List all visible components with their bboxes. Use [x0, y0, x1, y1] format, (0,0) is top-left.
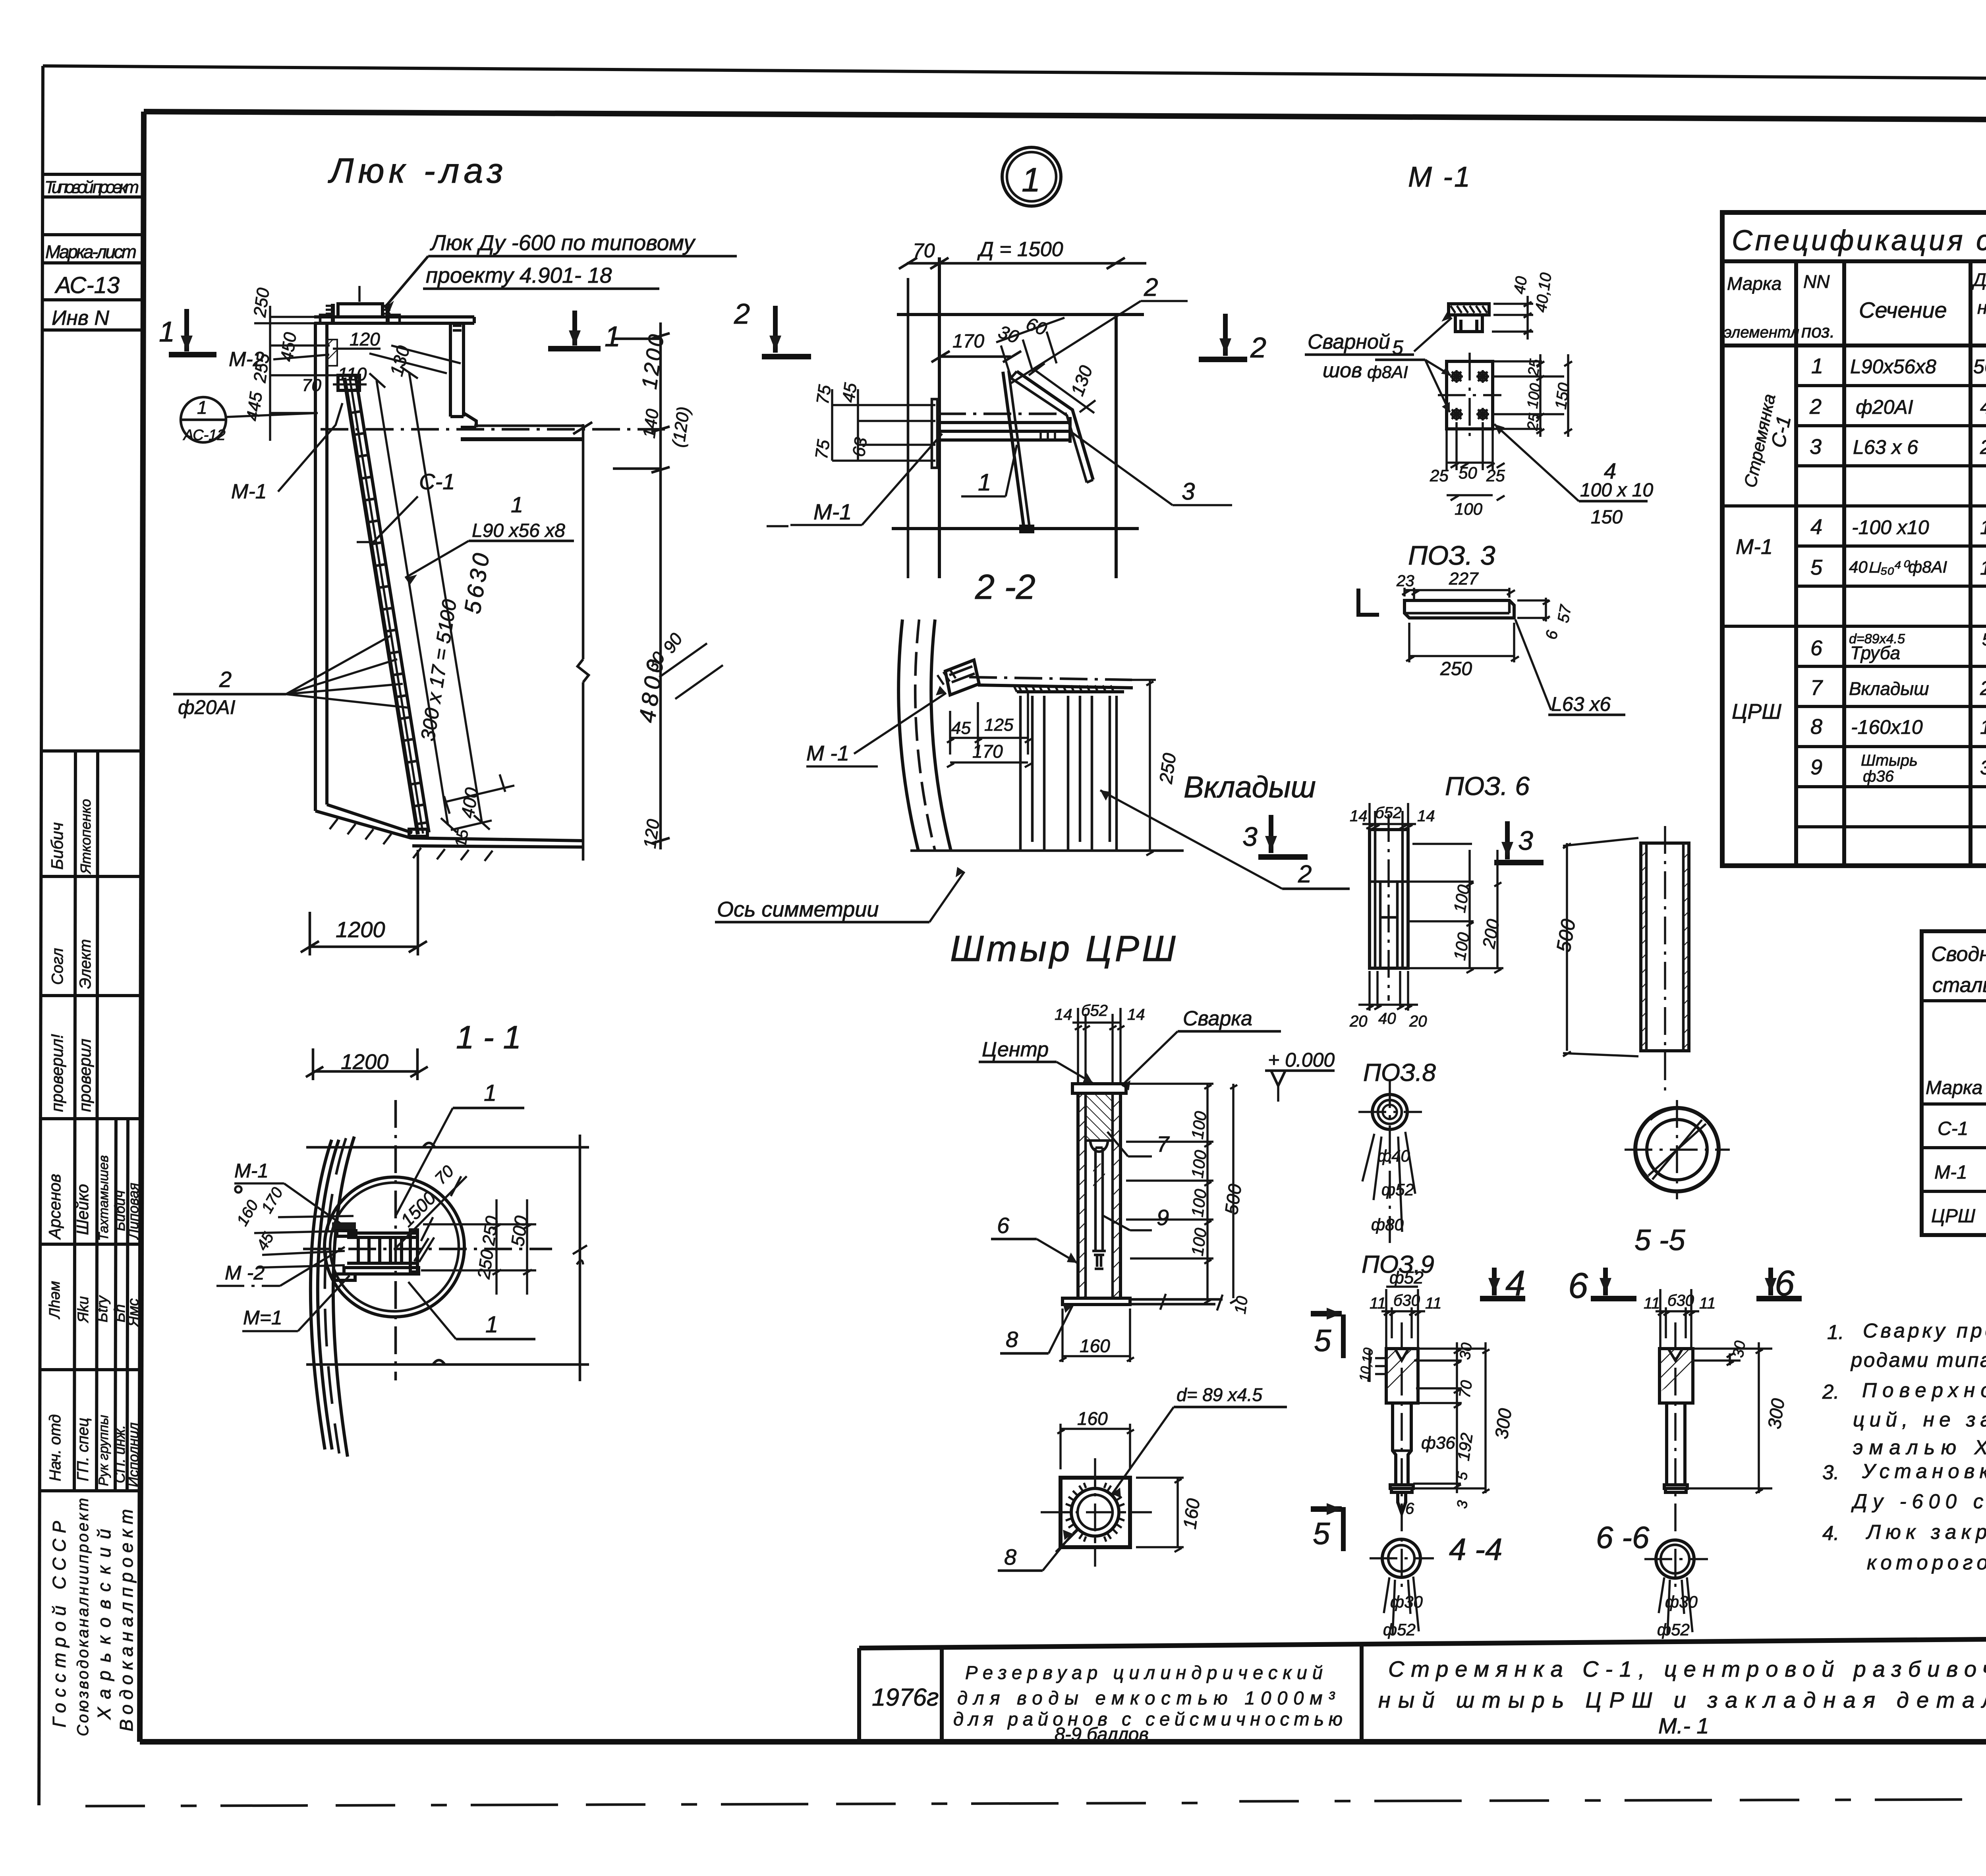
svg-text:25: 25	[1524, 412, 1543, 432]
svg-text:Ось симметрии: Ось симметрии	[717, 897, 879, 921]
section marks 3	[1242, 815, 1544, 863]
dims bottom 20 40 20	[1358, 971, 1418, 1011]
svg-text:проверил: проверил	[75, 1038, 94, 1112]
svg-text:Бибич: Бибич	[48, 822, 66, 870]
svg-text:4.: 4.	[1822, 1522, 1839, 1544]
svg-text:1: 1	[511, 492, 523, 517]
svg-text:465: 465	[1980, 396, 1986, 418]
svg-text:М -2: М -2	[225, 1262, 265, 1284]
svg-text:192: 192	[1454, 1432, 1476, 1462]
sheet outer border left	[39, 66, 43, 1805]
bottom dim 1200	[310, 946, 418, 948]
right dims 250 250 500	[579, 1135, 582, 1381]
dim 160 top	[1057, 1424, 1134, 1469]
balloon 1/АС-12	[181, 397, 226, 442]
svg-text:15: 15	[452, 828, 472, 849]
svg-text:Сечение: Сечение	[1859, 297, 1947, 322]
svg-text:2: 2	[1250, 332, 1266, 364]
svg-text:300: 300	[1764, 1397, 1788, 1430]
svg-text:70: 70	[302, 376, 321, 395]
svg-text:ЦРШ: ЦРШ	[1931, 1206, 1976, 1227]
svg-text:Д = 1500: Д = 1500	[977, 238, 1063, 261]
М-1 bracket on wall	[945, 660, 979, 695]
svg-text:1: 1	[978, 469, 991, 496]
svg-text:Люк Ду -600 по типовому: Люк Ду -600 по типовому	[430, 230, 696, 255]
svg-text:С-1: С-1	[1938, 1118, 1968, 1139]
svg-text:11: 11	[1425, 1295, 1442, 1312]
detail tube 500 (section 5-5 source)	[1552, 826, 1730, 1256]
svg-text:250: 250	[1440, 658, 1472, 679]
svg-text:160: 160	[1077, 1408, 1108, 1429]
svg-text:120: 120	[640, 818, 663, 849]
svg-text:140: 140	[639, 407, 663, 439]
plate dims right: 25 100 25 / 150	[1493, 354, 1572, 437]
svg-text:Элект: Элект	[77, 939, 94, 989]
svg-text:Лhəм: Лhəм	[46, 1281, 63, 1320]
svg-text:70: 70	[913, 239, 935, 262]
svg-text:14: 14	[1055, 1006, 1072, 1023]
svg-text:300: 300	[1980, 757, 1986, 779]
big specification table	[1722, 212, 1986, 866]
svg-text:500: 500	[507, 1214, 531, 1248]
svg-text:14: 14	[1127, 1006, 1145, 1023]
base plate	[1063, 1298, 1130, 1305]
svg-text:2: 2	[1298, 861, 1312, 888]
svg-text:5: 5	[1392, 336, 1403, 359]
svg-text:Арсенов: Арсенов	[45, 1174, 64, 1240]
dims right 100x4 500	[1126, 1084, 1237, 1303]
right dimension line	[659, 322, 662, 849]
svg-text:8-9 баллов: 8-9 баллов	[1055, 1724, 1149, 1745]
rail section	[938, 417, 1070, 443]
dim 160 below base	[1059, 1309, 1134, 1362]
water level dash-dot	[321, 428, 665, 431]
svg-text:L90x56x8: L90x56x8	[1850, 355, 1936, 378]
dims right 100 100 200	[1408, 844, 1503, 973]
svg-text:Исполнил: Исполнил	[125, 1422, 141, 1487]
svg-text:3.: 3.	[1822, 1461, 1839, 1484]
section marks 4, 5, 6 around 4-4	[1311, 1264, 1636, 1551]
svg-text:б30: б30	[1667, 1292, 1694, 1309]
sheet outer border top	[43, 66, 1986, 81]
roof slab right of beam	[474, 425, 583, 427]
svg-text:+ 0.000: + 0.000	[1268, 1049, 1335, 1071]
svg-text:-100 х10: -100 х10	[1852, 516, 1929, 538]
svg-text:25: 25	[1525, 358, 1544, 378]
svg-text:Рук группы: Рук группы	[96, 1415, 111, 1486]
svg-text:М -1: М -1	[806, 741, 849, 765]
dims 57 6	[1517, 598, 1550, 621]
svg-text:23: 23	[1396, 572, 1414, 590]
svg-text:ф8АI: ф8АI	[1367, 363, 1408, 382]
anchor pins	[1017, 690, 1124, 693]
svg-text:Согл: Согл	[49, 948, 66, 985]
dim 500	[1563, 838, 1638, 1056]
tank floor	[315, 811, 583, 841]
svg-text:шов: шов	[1323, 359, 1362, 382]
svg-text:Марка: Марка	[1727, 273, 1781, 294]
top block	[1386, 1349, 1418, 1403]
svg-text:3: 3	[1182, 478, 1195, 505]
svg-text:1: 1	[485, 1312, 498, 1338]
svg-text:ф20АI: ф20АI	[178, 696, 236, 718]
svg-text:6: 6	[1775, 1264, 1795, 1303]
svg-text:7: 7	[1157, 1131, 1170, 1156]
svg-text:ф36: ф36	[1863, 768, 1894, 785]
svg-text:5 -5: 5 -5	[1634, 1224, 1685, 1256]
construction verticals	[907, 278, 910, 578]
svg-text:2: 2	[1809, 395, 1822, 419]
svg-text:75: 75	[811, 438, 833, 461]
svg-text:11: 11	[1370, 1295, 1386, 1312]
svg-text:70: 70	[1456, 1379, 1476, 1399]
svg-text:50: 50	[1459, 463, 1477, 482]
top chord line	[306, 1146, 589, 1149]
svg-text:ф40: ф40	[1377, 1146, 1410, 1165]
svg-text:ф30: ф30	[1390, 1592, 1423, 1611]
svg-text:М-1: М-1	[813, 499, 852, 524]
svg-text:Штырь: Штырь	[1861, 752, 1918, 769]
svg-text:2: 2	[734, 298, 750, 330]
svg-text:-160х10: -160х10	[1851, 716, 1923, 738]
manhole circles	[325, 1177, 464, 1317]
svg-text:45: 45	[838, 382, 860, 404]
diagonal dim lines along ladder	[377, 380, 448, 825]
node circle 1	[1002, 147, 1061, 206]
svg-text:4: 4	[1810, 515, 1822, 539]
svg-text:Яku: Яku	[75, 1296, 92, 1323]
roof slab	[314, 315, 338, 318]
svg-text:75: 75	[813, 384, 835, 406]
svg-text:300: 300	[1491, 1407, 1515, 1440]
ladder rungs	[346, 390, 427, 824]
svg-text:Вкладыш: Вкладыш	[1849, 678, 1929, 699]
roof support beam	[450, 323, 476, 427]
small dims 10 left	[1370, 1350, 1385, 1382]
svg-text:3: 3	[1242, 822, 1258, 852]
detail М-1	[1305, 161, 1653, 528]
svg-text:200: 200	[1980, 677, 1986, 699]
svg-text:М-1: М-1	[1736, 535, 1773, 559]
svg-text:1: 1	[1022, 161, 1040, 199]
dims below	[1384, 1577, 1419, 1635]
tip	[1398, 1492, 1406, 1513]
svg-text:160: 160	[1980, 716, 1986, 738]
svg-text:5: 5	[1313, 1516, 1330, 1551]
frame left	[140, 112, 144, 1742]
ladder plan	[347, 1233, 417, 1268]
inner insert hatched	[1086, 1093, 1113, 1141]
svg-text:150: 150	[1552, 382, 1573, 410]
inner pin	[1092, 1148, 1106, 1269]
svg-text:170: 170	[972, 741, 1003, 762]
stem	[1393, 1403, 1411, 1484]
svg-text:1.: 1.	[1827, 1321, 1844, 1343]
plate dims bottom: 25 50 25 / 100	[1447, 422, 1505, 500]
baseline under pins	[910, 849, 1184, 852]
top horizontal	[897, 313, 1144, 316]
svg-text:250: 250	[250, 286, 273, 318]
svg-text:4 -4: 4 -4	[1449, 1532, 1502, 1567]
svg-text:100: 100	[1188, 1110, 1210, 1141]
svg-text:130: 130	[1980, 557, 1986, 579]
svg-text:1 - 1: 1 - 1	[456, 1019, 521, 1056]
svg-text:2 -2: 2 -2	[975, 567, 1036, 606]
sheet bottom scan edge dashed	[85, 1798, 1986, 1806]
svg-text:100: 100	[1188, 1149, 1210, 1179]
svg-text:11: 11	[1644, 1295, 1660, 1312]
svg-text:М-1: М-1	[231, 480, 267, 503]
svg-text:250: 250	[1155, 752, 1180, 786]
svg-text:100 х 10: 100 х 10	[1580, 480, 1653, 501]
svg-text:9: 9	[1157, 1205, 1169, 1230]
angle bar	[1404, 600, 1514, 618]
svg-text:Шейко: Шейко	[73, 1184, 92, 1235]
svg-text:1: 1	[159, 316, 175, 348]
svg-text:М=1: М=1	[243, 1307, 282, 1329]
svg-text:5: 5	[1810, 556, 1823, 579]
detail ПОЗ.3	[1358, 540, 1625, 715]
svg-text:250: 250	[1980, 436, 1986, 458]
dims 45 125 170 250	[947, 693, 1032, 767]
svg-text:Штыр ЦРШ: Штыр ЦРШ	[950, 928, 1178, 969]
svg-text:ЦРШ: ЦРШ	[1732, 700, 1781, 724]
svg-text:40: 40	[1378, 1010, 1396, 1027]
svg-text:110: 110	[338, 364, 367, 384]
wall arcs with М-1 bracket	[642, 620, 1350, 889]
svg-text:Люк -лаз: Люк -лаз	[328, 151, 507, 190]
svg-text:45: 45	[951, 718, 971, 738]
svg-text:ПОЗ.8: ПОЗ.8	[1363, 1059, 1436, 1087]
left margin stamp: signature grid	[39, 751, 142, 1736]
svg-text:б30: б30	[1393, 1292, 1420, 1309]
dims 40/10 right of channel	[1492, 296, 1533, 340]
svg-text:100: 100	[1455, 500, 1483, 518]
svg-text:М -1: М -1	[1408, 161, 1472, 193]
svg-text:1: 1	[1811, 354, 1823, 378]
svg-text:ф52: ф52	[1389, 1268, 1424, 1287]
svg-text:40: 40	[1511, 275, 1530, 295]
label Ось симметрии	[715, 867, 964, 922]
svg-text:ф30: ф30	[1665, 1592, 1698, 1611]
svg-text:25: 25	[1486, 466, 1505, 485]
svg-text:20: 20	[1349, 1013, 1368, 1030]
svg-text:1: 1	[605, 321, 620, 353]
ladder stringers C-1	[344, 378, 418, 834]
top dim line Д=1500	[907, 262, 1146, 265]
svg-text:Бtry: Бtry	[94, 1295, 111, 1322]
svg-text:227: 227	[1449, 569, 1479, 589]
svg-text:150: 150	[1980, 516, 1986, 538]
channel piece poz 5	[1449, 304, 1489, 315]
gear circle	[1071, 1488, 1119, 1536]
svg-text:стальных элементов: стальных элементов	[1932, 974, 1986, 997]
tank left wall	[314, 323, 317, 811]
anchor plate poz 4 with bolts	[1447, 361, 1493, 429]
svg-text:125: 125	[984, 715, 1014, 735]
svg-text:3: 3	[1518, 826, 1533, 856]
svg-text:6: 6	[1568, 1266, 1588, 1306]
svg-text:Длина: Длина	[1971, 269, 1986, 290]
mark 6 right	[1768, 1268, 1773, 1295]
bottom chord	[306, 1363, 589, 1366]
summary table	[1922, 931, 1986, 1235]
svg-text:L90 х56 х8: L90 х56 х8	[472, 520, 565, 541]
svg-text:Труба: Труба	[1850, 643, 1900, 663]
svg-text:2: 2	[1144, 273, 1158, 301]
svg-text:ПОЗ. 6: ПОЗ. 6	[1445, 771, 1530, 801]
label L63x6	[1515, 620, 1551, 710]
svg-text:Сводная спецификация: Сводная спецификация	[1931, 943, 1986, 966]
spec table rows	[1722, 354, 1986, 827]
dashed rail	[969, 677, 1132, 680]
svg-text:б52: б52	[1375, 804, 1402, 822]
post body	[1076, 1093, 1080, 1298]
svg-text:элементл: элементл	[1724, 324, 1799, 341]
svg-text:проверил!: проверил!	[48, 1034, 66, 1112]
svg-text:1200: 1200	[336, 917, 385, 942]
ladder edge-on	[1003, 372, 1024, 529]
svg-text:ф52: ф52	[1381, 1180, 1414, 1199]
svg-text:5630: 5630	[1973, 355, 1986, 378]
ladder foot	[409, 829, 427, 836]
view 2-2	[734, 238, 1266, 606]
svg-text:М-1: М-1	[234, 1160, 269, 1182]
svg-text:М.- 1: М.- 1	[1658, 1713, 1709, 1738]
svg-text:ф80: ф80	[1371, 1215, 1404, 1234]
left margin stamp: top boxes	[41, 174, 143, 330]
svg-text:6: 6	[1405, 1500, 1414, 1517]
svg-text:Сварку производить согласно С: Сварку производить согласно СН-393-69 эл…	[1863, 1319, 1986, 1342]
svg-text:Союзводоканалниипроект: Союзводоканалниипроект	[74, 1498, 92, 1736]
svg-text:ф52: ф52	[1657, 1620, 1690, 1639]
svg-text:6: 6	[997, 1213, 1010, 1238]
section break line right	[578, 424, 589, 861]
svg-text:20: 20	[1409, 1013, 1427, 1030]
svg-text:d= 89 х4.5: d= 89 х4.5	[1177, 1384, 1263, 1405]
svg-text:Ямс: Ямс	[125, 1298, 142, 1327]
svg-text:Тахтамышев: Тахтамышев	[96, 1155, 111, 1241]
svg-text:нм: нм	[1977, 297, 1986, 318]
frame bottom	[140, 1739, 1986, 1745]
svg-text:4: 4	[1505, 1264, 1525, 1303]
svg-text:63: 63	[849, 436, 871, 458]
detail ПОЗ.8 circles	[1358, 1059, 1436, 1278]
section mark 1 right	[548, 346, 601, 351]
svg-text:L63 х6: L63 х6	[1551, 693, 1611, 715]
svg-text:ф36: ф36	[1421, 1433, 1455, 1453]
svg-text:ПОЗ. 3: ПОЗ. 3	[1408, 540, 1495, 571]
svg-text:ГП. спец: ГП. спец	[74, 1418, 92, 1481]
svg-text:Нач. отд: Нач. отд	[46, 1414, 64, 1481]
detail ПОЗ.9 square plate	[998, 1384, 1287, 1571]
svg-text:поз.: поз.	[1801, 321, 1835, 342]
svg-text:5: 5	[1314, 1323, 1331, 1358]
svg-text:6: 6	[1810, 636, 1823, 660]
svg-text:М-2: М-2	[229, 348, 265, 371]
detail вкладыш tube (front)	[1349, 803, 1503, 1030]
svg-text:Госстрой СССР: Госстрой СССР	[49, 1521, 70, 1727]
svg-text:АС-13: АС-13	[54, 272, 120, 298]
svg-text:7: 7	[1810, 676, 1823, 700]
title block	[859, 1636, 1986, 1745]
svg-text:6 -6: 6 -6	[1596, 1520, 1650, 1555]
svg-text:500: 500	[1221, 1183, 1245, 1216]
svg-text:Вкладыш: Вкладыш	[1184, 770, 1316, 804]
svg-text:Марка: Марка	[1926, 1077, 1982, 1098]
svg-text:14: 14	[1350, 807, 1368, 825]
svg-text:L63 х 6: L63 х 6	[1853, 436, 1918, 458]
svg-text:2.: 2.	[1822, 1380, 1839, 1403]
svg-text:М-1: М-1	[1934, 1162, 1967, 1183]
inner sleeve hatched	[1370, 882, 1380, 968]
svg-text:10: 10	[1231, 1295, 1251, 1315]
notes	[1822, 1259, 1986, 1574]
flange	[1390, 1485, 1413, 1488]
view 1-1 plan	[216, 1019, 589, 1457]
dims 23 227	[1402, 588, 1515, 599]
view Люк-лаз	[159, 151, 737, 955]
svg-text:NN: NN	[1803, 271, 1830, 292]
dim 160 right	[1136, 1478, 1184, 1552]
svg-text:11: 11	[1699, 1295, 1716, 1312]
svg-text:9: 9	[1810, 755, 1822, 779]
svg-text:1: 1	[197, 397, 207, 418]
svg-text:160: 160	[1179, 1497, 1204, 1531]
svg-text:1976г: 1976г	[872, 1684, 939, 1711]
svg-text:445: 445	[243, 390, 266, 422]
svg-text:3: 3	[1810, 435, 1822, 459]
svg-text:АС-12: АС-12	[183, 427, 226, 444]
svg-text:500: 500	[1982, 630, 1986, 649]
svg-text:14: 14	[1417, 807, 1435, 825]
dim 250	[1406, 623, 1519, 662]
svg-text:8: 8	[1810, 715, 1822, 739]
brace	[1017, 371, 1093, 480]
svg-text:8: 8	[1004, 1544, 1016, 1569]
tank wall arcs	[311, 1140, 332, 1449]
svg-text:ф52: ф52	[1383, 1620, 1416, 1639]
svg-text:Типовой проект: Типовой проект	[44, 178, 139, 197]
svg-text:Сварной: Сварной	[1308, 330, 1390, 353]
svg-text:родами типа Э42 по ГОСТ9466-6: родами типа Э42 по ГОСТ9466-60.Сварные ш…	[1850, 1349, 1986, 1371]
svg-text:160: 160	[1080, 1336, 1110, 1356]
svg-text:Яткопенко: Яткопенко	[77, 799, 94, 874]
circle below (5-5)	[1635, 1108, 1719, 1191]
svg-text:170: 170	[952, 331, 984, 352]
centerlines	[394, 1100, 397, 1380]
svg-text:Стремянка С-1, центровой разб: Стремянка С-1, центровой разбивоч-	[1388, 1656, 1986, 1681]
view 4-4 pin	[1356, 1268, 1515, 1639]
post top plate	[1072, 1084, 1126, 1093]
svg-text:100: 100	[1188, 1227, 1210, 1257]
svg-text:Харьковский: Харьковский	[94, 1529, 114, 1720]
assembly ЦРШ post	[979, 1002, 1335, 1362]
svg-text:Спецификация стали на 1элемент: Спецификация стали на 1элемент Вст 3кп2	[1732, 225, 1986, 257]
svg-text:25: 25	[1430, 466, 1449, 485]
svg-text:120: 120	[350, 329, 380, 349]
svg-text:150: 150	[1591, 507, 1623, 528]
angle symbol	[1358, 589, 1379, 615]
svg-text:ф20АI: ф20АI	[1856, 396, 1913, 418]
svg-text:Сварка: Сварка	[1183, 1007, 1252, 1030]
svg-text:которого хранится у диспетч: которого хранится у диспетчера.	[1867, 1551, 1986, 1574]
svg-text:100: 100	[1188, 1188, 1210, 1218]
ladder top bracket	[338, 375, 359, 390]
svg-text:8: 8	[1006, 1327, 1018, 1352]
svg-text:2: 2	[219, 667, 232, 692]
svg-text:проекту 4.901- 18: проекту 4.901- 18	[426, 263, 612, 288]
